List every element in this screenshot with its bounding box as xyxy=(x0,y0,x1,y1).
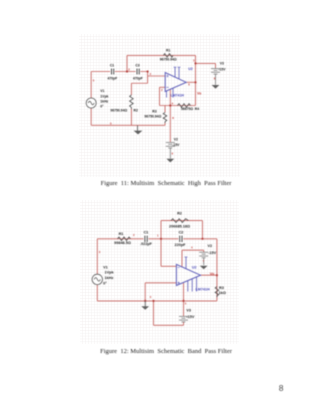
svg-text:2: 2 xyxy=(133,233,135,237)
svg-text:4: 4 xyxy=(172,101,174,105)
svg-text:Vo: Vo xyxy=(197,91,202,95)
svg-text:6: 6 xyxy=(188,82,190,86)
svg-text:2: 2 xyxy=(128,67,130,71)
svg-text:96750.94Ω: 96750.94Ω xyxy=(110,108,127,112)
svg-text:1kHz: 1kHz xyxy=(105,276,114,280)
svg-text:V3: V3 xyxy=(220,61,224,65)
svg-text:3: 3 xyxy=(193,59,195,63)
svg-text:0: 0 xyxy=(110,121,112,125)
svg-text:470pF: 470pF xyxy=(107,76,117,80)
svg-text:470pF: 470pF xyxy=(133,76,143,80)
svg-text:56675Ω: 56675Ω xyxy=(181,107,193,111)
svg-text:C1: C1 xyxy=(144,230,149,234)
svg-text:-15V: -15V xyxy=(208,251,216,255)
svg-text:1kΩ: 1kΩ xyxy=(219,291,226,295)
svg-text:5: 5 xyxy=(93,79,95,83)
svg-text:C3: C3 xyxy=(135,63,139,67)
svg-text:U2: U2 xyxy=(192,266,197,270)
svg-text:V1: V1 xyxy=(100,89,104,93)
svg-text:96750.94Ω: 96750.94Ω xyxy=(160,57,177,61)
svg-text:-15V: -15V xyxy=(172,143,180,147)
svg-text:V2: V2 xyxy=(208,244,213,248)
svg-text:R1: R1 xyxy=(166,48,170,52)
svg-text:0: 0 xyxy=(150,295,152,299)
svg-text:0°: 0° xyxy=(100,105,104,109)
svg-text:7: 7 xyxy=(203,259,205,263)
svg-text:-15V: -15V xyxy=(218,67,226,71)
svg-text:8: 8 xyxy=(172,116,174,120)
svg-text:5: 5 xyxy=(185,302,187,306)
svg-text:C2: C2 xyxy=(179,230,184,234)
svg-text:3: 3 xyxy=(99,250,101,254)
svg-text:1Vpk: 1Vpk xyxy=(100,95,108,99)
svg-text:9: 9 xyxy=(172,151,174,155)
svg-text:R3: R3 xyxy=(152,110,156,114)
svg-text:V3: V3 xyxy=(186,308,191,312)
svg-text:V2: V2 xyxy=(174,138,178,142)
svg-text:1: 1 xyxy=(157,233,159,237)
svg-text:LM741H: LM741H xyxy=(196,287,210,291)
svg-text:220pF: 220pF xyxy=(175,243,187,247)
svg-text:.022µF: .022µF xyxy=(140,242,153,246)
svg-text:-15V: -15V xyxy=(186,315,194,319)
svg-text:99848.5Ω: 99848.5Ω xyxy=(114,241,131,245)
svg-text:206685.18Ω: 206685.18Ω xyxy=(169,225,190,229)
svg-text:R4: R4 xyxy=(195,107,199,111)
svg-text:1kHz: 1kHz xyxy=(100,100,108,104)
svg-text:0°: 0° xyxy=(103,281,107,285)
svg-text:U2: U2 xyxy=(188,67,193,71)
svg-text:R2: R2 xyxy=(134,108,138,112)
svg-text:1Vpk: 1Vpk xyxy=(105,271,115,275)
svg-text:96750.94Ω: 96750.94Ω xyxy=(144,115,161,119)
svg-text:R1: R1 xyxy=(119,232,124,236)
svg-text:Vo: Vo xyxy=(210,272,215,276)
svg-text:2: 2 xyxy=(161,88,163,92)
svg-text:LM741H: LM741H xyxy=(171,93,185,97)
svg-text:V1: V1 xyxy=(103,265,108,269)
svg-text:R3: R3 xyxy=(219,286,224,290)
svg-text:R2: R2 xyxy=(177,212,182,216)
svg-text:C1: C1 xyxy=(110,63,114,67)
svg-text:4: 4 xyxy=(191,245,193,249)
